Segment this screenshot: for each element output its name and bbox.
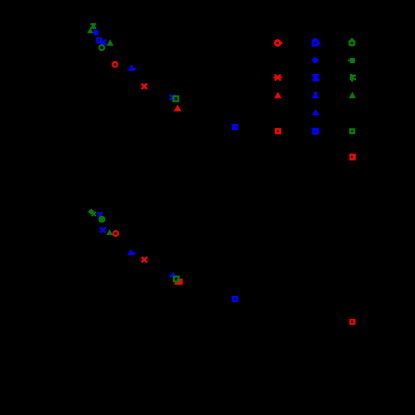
isolated: red filled square with slot bottom right (349, 319, 355, 325)
legend r7c3: red filled square with slot (349, 154, 355, 161)
upper band: green open square (173, 96, 178, 101)
lower band: green x in circle (99, 217, 104, 222)
legend r4c2b: blue apex bar (314, 92, 317, 94)
legend r3c3: green K shape (350, 74, 356, 82)
lower band: red block right (179, 279, 183, 285)
upper band: red filled triangle (174, 105, 181, 112)
legend r1c1: red ring with right nub (275, 41, 282, 46)
upper band: blue filled triangle (128, 64, 135, 71)
lower band: red x (142, 257, 147, 262)
upper band: blue filled pentagon (93, 29, 99, 35)
lower band: blue filled triangle (128, 249, 135, 255)
lower band: green open square (174, 277, 179, 282)
upper band: green star marker (91, 23, 96, 29)
legend r2c2: blue filled circle (312, 57, 318, 63)
legend r3c1: red bold x with side arms (274, 75, 282, 81)
upper band: red open circle (113, 62, 118, 67)
lower band: red base bar (175, 282, 183, 284)
lower band: blue nub right of triangle (133, 252, 136, 254)
legend r1c3: green ring square with top nub (350, 38, 355, 45)
lower band: green filled triangle (106, 229, 112, 235)
upper band: red x (142, 84, 147, 89)
legend r2c3: green filled square with left nub (348, 58, 355, 63)
legend r6c1: red open square (276, 129, 280, 133)
upper band: blue x behind square (170, 95, 176, 101)
legend r6c2: blue filled square with slot (312, 128, 319, 135)
upper band: blue filled square with dot (232, 124, 238, 130)
lower band: blue filled square with slot (232, 296, 238, 302)
upper band: green open circle (99, 45, 104, 50)
upper band: green filled triangle 2 (107, 39, 114, 45)
lower band: red open ring (113, 231, 118, 236)
legend r1c2: blue open square with nubs (313, 38, 320, 46)
upper band: blue open square (97, 38, 101, 42)
lower band: green filled diamond (88, 209, 94, 215)
legend r3c2: blue hourglass (312, 74, 319, 81)
legend r4c1: red filled triangle (274, 92, 281, 98)
lower band: green x (92, 212, 96, 216)
legend r5c2: blue filled low triangle (312, 110, 320, 116)
lower band: red dot inside green square (177, 279, 178, 280)
upper band: blue nub right of triangle (133, 68, 136, 70)
upper band: blue x (101, 40, 107, 46)
lower band: green open circle (99, 217, 104, 222)
lower band: blue bold x (100, 227, 106, 233)
upper band: green filled triangle (87, 28, 93, 34)
legend r4c3: green filled triangle (349, 92, 356, 98)
legend r6c3: green square with dot (349, 128, 355, 134)
lower band: blue x (97, 212, 102, 217)
lower band: blue filled triangle small (170, 272, 176, 277)
upper band: dark dot in blue square (235, 126, 237, 128)
lower band: blue streak left (169, 275, 172, 278)
legend r4c2: blue filled triangle cake (312, 92, 319, 99)
